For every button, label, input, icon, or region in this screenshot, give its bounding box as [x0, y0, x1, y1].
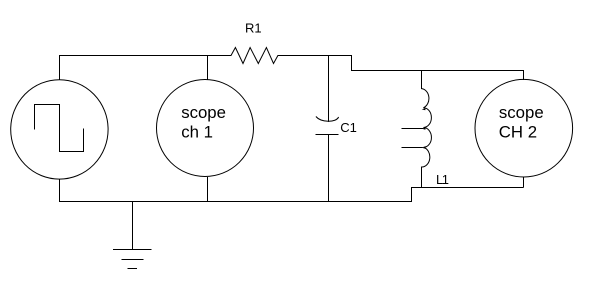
svg-text:CH 2: CH 2	[499, 123, 537, 142]
svg-text:scope: scope	[499, 103, 544, 122]
svg-text:R1: R1	[245, 21, 262, 36]
svg-text:scope: scope	[181, 103, 226, 122]
svg-text:L1: L1	[436, 172, 449, 187]
svg-text:C1: C1	[340, 120, 357, 135]
svg-text:ch 1: ch 1	[181, 123, 213, 142]
